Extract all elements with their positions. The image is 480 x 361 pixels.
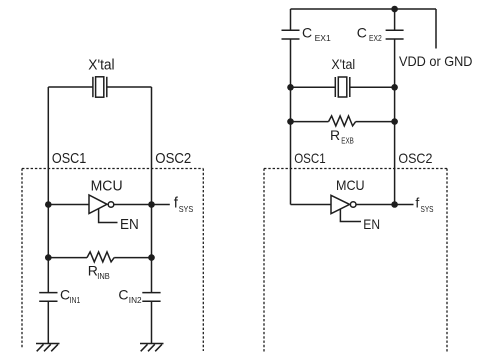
- node junction right rail / crystal: [391, 84, 398, 91]
- svg-text:IN2: IN2: [129, 295, 142, 305]
- svg-text:C: C: [118, 287, 128, 303]
- svg-text:IN1: IN1: [70, 295, 81, 305]
- node junction left rail / inverter: [45, 201, 52, 208]
- svg-text:OSC2: OSC2: [398, 150, 432, 166]
- wire: OSC1 rail to inverter input: [48, 204, 89, 206]
- capacitor CEX2: [386, 30, 404, 39]
- node junction right rail / REXB: [391, 118, 398, 125]
- wire: left rail to resistor: [48, 257, 87, 259]
- node junction top rail / CEX2: [391, 6, 398, 13]
- wire: top-left corner down to CEX1: [290, 9, 292, 30]
- wire: left rail (right circuit): [290, 39, 292, 205]
- node junction left rail / REXB: [287, 118, 294, 125]
- svg-text:OSC1: OSC1: [52, 150, 86, 167]
- MCU dotted box (right): [264, 169, 447, 353]
- wire: inverter output to OSC2 rail: [114, 204, 152, 206]
- capacitor CIN1: [39, 293, 57, 302]
- wire: top wire left segment to crystal: [48, 86, 93, 88]
- wire: left rail corner to inverter input: [291, 204, 332, 206]
- wire: fSYS stub (right): [395, 204, 414, 206]
- wire: left rail to REXB: [291, 121, 329, 123]
- svg-text:SYS: SYS: [421, 204, 434, 214]
- wire: CIN2 to ground: [151, 301, 153, 343]
- wire: left rail to crystal: [291, 86, 336, 88]
- svg-text:OSC2: OSC2: [155, 150, 191, 167]
- label RINB: [88, 263, 110, 282]
- resistor RINB: [87, 252, 114, 262]
- wire: top rail: [291, 8, 437, 10]
- svg-text:EX2: EX2: [369, 33, 382, 43]
- wire: REXB to right rail: [356, 121, 395, 123]
- svg-text:MCU: MCU: [91, 177, 123, 194]
- wire: EN stub: [99, 209, 118, 223]
- wire: junction down to CEX2: [394, 9, 396, 30]
- label CEX2: [357, 25, 382, 43]
- svg-text:VDD or GND: VDD or GND: [399, 53, 473, 69]
- resistor REXB: [329, 116, 356, 126]
- label CIN2: [118, 287, 141, 305]
- svg-text:R: R: [330, 127, 340, 143]
- ground (left circuit, right): [140, 344, 164, 352]
- svg-text:MCU: MCU: [336, 177, 365, 193]
- svg-text:EX1: EX1: [315, 33, 331, 43]
- svg-text:C: C: [302, 25, 312, 41]
- wire: crystal to top-right corner: [107, 86, 152, 88]
- crystal X'tal (left): [93, 77, 107, 97]
- MCU dotted box (left): [22, 169, 203, 352]
- wire: EN stub (right): [340, 209, 361, 222]
- wire: inverter output to OSC2 rail: [356, 204, 395, 206]
- node junction left rail / crystal: [287, 84, 294, 91]
- wire: crystal to right rail: [350, 86, 395, 88]
- label CEX1: [302, 25, 331, 43]
- wire: fSYS stub: [152, 204, 170, 206]
- wire: resistor to right rail: [114, 257, 151, 259]
- node junction right rail / inverter: [148, 201, 155, 208]
- node fSYS (right): [415, 195, 433, 214]
- crystal X'tal (right): [335, 77, 350, 97]
- capacitor CEX1: [282, 30, 300, 39]
- svg-text:C: C: [357, 25, 367, 41]
- wire: right rail OSC2: [151, 87, 153, 293]
- op-amp inverter U2 (right): [331, 195, 356, 213]
- wire: right rail (right circuit): [394, 39, 396, 205]
- svg-text:f: f: [415, 195, 419, 211]
- wire: CIN1 to ground: [47, 301, 49, 343]
- svg-text:C: C: [60, 287, 70, 303]
- label CIN1: [60, 287, 81, 305]
- svg-text:EN: EN: [363, 216, 380, 232]
- node junction right rail / resistor: [148, 254, 155, 261]
- svg-text:SYS: SYS: [179, 204, 194, 214]
- wire: left rail OSC1: [47, 87, 49, 293]
- svg-text:X'tal: X'tal: [88, 57, 114, 74]
- svg-text:EXB: EXB: [341, 135, 354, 145]
- svg-text:X'tal: X'tal: [331, 56, 355, 72]
- ground (left circuit, left): [36, 344, 60, 352]
- svg-text:INB: INB: [97, 271, 110, 281]
- svg-text:R: R: [88, 263, 98, 279]
- svg-text:EN: EN: [120, 216, 139, 233]
- label REXB: [330, 127, 354, 145]
- capacitor CIN2: [142, 293, 160, 302]
- op-amp inverter U1 (left): [89, 195, 114, 214]
- svg-text:OSC1: OSC1: [294, 150, 326, 166]
- node junction left rail / resistor: [45, 254, 52, 261]
- node fSYS (left): [174, 195, 194, 214]
- node junction OSC2 rail / fSYS: [391, 201, 398, 208]
- wire: VDD stub: [435, 9, 437, 49]
